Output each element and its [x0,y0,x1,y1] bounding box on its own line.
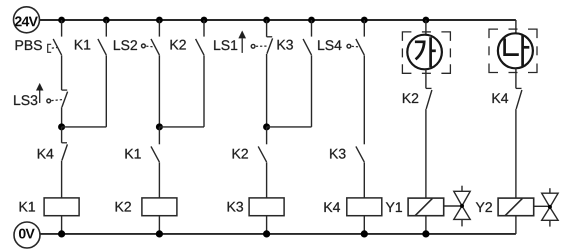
label K1 (series contact) [125,149,140,159]
wire K2 contact to solenoid Y1 [425,109,427,198]
junction top rail / branch 6 [308,17,315,24]
wire LS2 to node N2 [158,55,160,127]
wire coil K1 to bottom rail [61,216,63,234]
junction bottom rail / branch 5 [263,230,270,237]
limit switch contact LS3 (NC) with roller actuator [47,90,68,107]
wire lamp A to contact K2 [425,69,427,88]
wire Y1 to valve symbol [444,205,461,207]
wire LS1 to node N3 [266,54,268,127]
relay coil K2 [142,198,177,216]
wire K2 contact down to node line [203,55,205,127]
relay contact K4 (NC, lamp branch) [516,88,522,109]
actuator arrow LS3 [36,83,43,103]
wire solenoid Y2 to bottom rail corner [515,216,517,234]
relay coil K4 [347,198,382,216]
label K2 coil [116,202,131,212]
junction top rail / branch 7 [361,17,368,24]
junction node N3 [263,123,270,130]
wire K1 contact down to node line [105,55,107,127]
wire node N2 to contact K1 [158,127,160,144]
bottom power rail (0V bus) [40,233,516,235]
label K4 (interlock) [38,149,54,159]
wire node N1 to contact K4 [61,127,63,143]
junction bottom rail / branch 3 [156,230,163,237]
wire K4 contact to coil K1 [61,161,63,198]
wire K3 contact down to node line [311,55,313,127]
wire node line N2 (horizontal) [159,126,204,128]
label Y1 [386,202,402,212]
junction node N2 [156,123,163,130]
label LS2 [114,40,137,50]
wire node N3 to contact K2 [266,127,268,144]
label K2 (lamp branch contact) [403,93,418,103]
label LS3 [14,95,37,105]
indicator lamp A (Korean 'ga') with dashed enclosure [402,32,450,73]
wire rail to lamp A [425,20,427,35]
label Y2 [476,202,492,212]
wire node line N3 (horizontal) [267,126,312,128]
junction bottom rail / branch 1 [58,230,65,237]
relay contact K3 (NO, holding) [303,20,311,55]
junction bottom rail / branch 7 [361,230,368,237]
wire top rail corner down to lamp B [515,20,517,33]
junction top rail / branch 8 (lamp A) [423,17,430,24]
wire Y2 to valve symbol [534,205,549,207]
label K2 (holding contact) [171,40,186,50]
junction top rail / branch 4 [201,17,208,24]
wire PBS to LS3 [61,55,63,90]
wire LS3 to node N1 [61,107,63,127]
relay contact K1 (NO, holding) [98,20,106,55]
junction top rail / branch 1 [58,17,65,24]
actuator arrow LS1 [239,31,246,53]
valve symbol at Y1 [454,186,470,227]
label K1 (holding contact) [75,40,90,50]
label K3 (holding contact) [278,40,293,50]
relay contact K2 (NO series) [258,146,266,162]
relay coil K3 [249,198,284,216]
wire K1 contact to coil K2 [158,162,160,198]
wire coil K3 to bottom rail [266,216,268,234]
wire coil K4 to bottom rail [363,216,365,234]
label PBS [16,40,42,50]
pushbutton contact PBS (NO) with actuator [48,20,62,55]
label K3 (series contact) [330,149,345,159]
junction top rail / branch 5 [263,17,270,24]
junction top rail / branch 2 [103,17,110,24]
wire node line N1 (horizontal) [62,126,107,128]
junction top rail / branch 3 [156,17,163,24]
label LS4 [318,40,341,50]
relay contact K2 (NC, lamp branch) [426,88,432,109]
valve symbol at Y2 [542,188,558,226]
relay contact K4 (NC interlock) [62,143,68,161]
label K4 (lamp branch contact) [493,93,509,103]
solenoid valve coil Y1 [408,198,444,216]
junction bottom rail / branch 8 [422,230,429,237]
relay coil K1 [44,198,79,216]
relay contact K1 (NO series) [151,146,159,162]
relay contact K3 (NO series) [356,146,364,162]
wire K2 contact to coil K3 [266,162,268,198]
wire K3 contact to coil K4 [363,162,365,198]
label LS1 [214,40,237,50]
wire coil K2 to bottom rail [158,216,160,234]
solenoid valve coil Y2 [498,198,534,216]
limit switch contact LS2 (NO) with roller actuator [142,20,160,55]
label K4 coil [324,202,340,212]
power supply terminal 24V [14,7,40,33]
label K2 (series contact) [233,149,248,159]
wire lamp B to contact K4 [515,68,517,88]
wire solenoid Y1 to bottom rail [425,216,427,234]
top power rail (24V bus) [40,19,516,21]
wire LS4 to contact K3 [363,55,365,144]
limit switch contact LS4 (NO) with roller actuator [347,20,364,55]
label K1 coil [20,202,35,212]
indicator lamp B (Korean 'na') with dashed enclosure [489,29,537,72]
label K3 coil [228,202,243,212]
limit switch contact LS1 (NC) with roller actuator [251,20,272,54]
relay contact K2 (NO, holding) [196,20,204,55]
junction node N1 [58,123,65,130]
wire K4 contact to solenoid Y2 [515,109,517,198]
power supply terminal 0V [14,222,40,248]
